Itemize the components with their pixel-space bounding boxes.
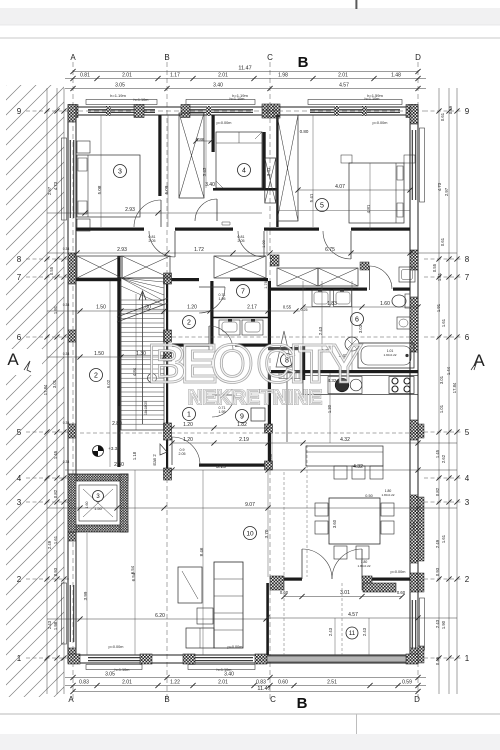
svg-text:1.01: 1.01 bbox=[439, 404, 444, 413]
room 6 bbox=[351, 313, 364, 326]
wall corridor north y227 bbox=[76, 228, 144, 231]
svg-text:p=0.00m: p=0.00m bbox=[217, 121, 232, 125]
svg-text:2: 2 bbox=[465, 575, 470, 584]
svg-text:1.17: 1.17 bbox=[170, 73, 180, 79]
svg-text:B: B bbox=[297, 695, 308, 712]
svg-text:7: 7 bbox=[241, 289, 245, 296]
svg-text:0.59: 0.59 bbox=[448, 105, 453, 114]
svg-text:17.84: 17.84 bbox=[43, 384, 48, 395]
svg-text:h=1.10m: h=1.10m bbox=[230, 97, 245, 101]
wall room3 east x158 bbox=[158, 115, 161, 196]
svg-text:6.02: 6.02 bbox=[106, 379, 111, 388]
svg-text:0.45: 0.45 bbox=[435, 656, 440, 665]
svg-text:2.62: 2.62 bbox=[441, 454, 446, 463]
svg-text:2.97: 2.97 bbox=[444, 187, 449, 196]
boiler bbox=[345, 337, 359, 351]
svg-text:0.93: 0.93 bbox=[435, 567, 440, 576]
elevator shaft bbox=[68, 474, 128, 532]
door bath7 bbox=[199, 286, 225, 288]
svg-text:1: 1 bbox=[17, 654, 22, 663]
svg-text:p=0.00m: p=0.00m bbox=[391, 570, 406, 574]
right wall piers bbox=[410, 105, 418, 125]
svg-text:1: 1 bbox=[187, 412, 191, 419]
terrace double door bbox=[301, 549, 303, 579]
svg-text:3.05: 3.05 bbox=[105, 672, 115, 678]
svg-text:4: 4 bbox=[17, 474, 22, 483]
svg-text:6: 6 bbox=[17, 333, 22, 342]
svg-text:A: A bbox=[68, 695, 74, 704]
svg-text:2.01: 2.01 bbox=[218, 73, 228, 79]
bar stools bbox=[334, 466, 347, 479]
room 4 bbox=[238, 164, 251, 177]
svg-text:4.73: 4.73 bbox=[437, 182, 442, 191]
staircase bbox=[121, 278, 164, 430]
svg-text:2.49: 2.49 bbox=[435, 539, 440, 548]
bathtub bbox=[358, 343, 414, 368]
wall bath6 north y287 bbox=[268, 288, 367, 291]
svg-text:3.40: 3.40 bbox=[205, 182, 215, 188]
svg-text:1.18: 1.18 bbox=[132, 451, 137, 460]
svg-text:3.01: 3.01 bbox=[340, 590, 350, 596]
svg-text:0.60: 0.60 bbox=[280, 590, 289, 595]
svg-text:A: A bbox=[7, 350, 19, 369]
svg-text:9: 9 bbox=[465, 107, 470, 116]
big pier C bbox=[262, 104, 280, 118]
svg-text:1.50: 1.50 bbox=[94, 506, 103, 511]
wall hall east x268 bbox=[268, 281, 271, 345]
top dim rows bbox=[73, 71, 418, 73]
svg-text:h=1.10m: h=1.10m bbox=[134, 98, 149, 102]
svg-text:4.07: 4.07 bbox=[335, 184, 345, 190]
svg-text:3: 3 bbox=[465, 498, 470, 507]
left dim chains bbox=[46, 88, 48, 694]
door room3 bbox=[160, 200, 162, 227]
nightstands room3 bbox=[77, 141, 90, 153]
svg-text:0.61: 0.61 bbox=[440, 237, 445, 246]
svg-text:2.43: 2.43 bbox=[362, 627, 367, 636]
svg-text:0.50: 0.50 bbox=[365, 494, 372, 498]
svg-text:18x18/25: 18x18/25 bbox=[144, 401, 148, 415]
svg-text:4.57: 4.57 bbox=[339, 83, 349, 89]
bath6 vertical dims line bbox=[302, 281, 304, 370]
kitchen island bbox=[306, 446, 383, 466]
svg-text:1.82: 1.82 bbox=[237, 422, 247, 428]
svg-text:4.73: 4.73 bbox=[53, 181, 58, 190]
svg-text:1.22: 1.22 bbox=[170, 680, 180, 686]
svg-text:stan 2: stan 2 bbox=[152, 454, 157, 466]
bed room5 bbox=[349, 163, 404, 223]
svg-text:4.32: 4.32 bbox=[340, 437, 350, 443]
svg-text:1.60: 1.60 bbox=[380, 301, 390, 307]
svg-text:2.49: 2.49 bbox=[47, 540, 52, 549]
svg-text:3.99: 3.99 bbox=[83, 591, 88, 600]
long thin dim verticals for density bbox=[100, 115, 102, 227]
closet hall6 bbox=[277, 268, 318, 286]
bottom windows bbox=[86, 665, 142, 670]
room 1 bbox=[183, 408, 196, 421]
svg-text:9.07: 9.07 bbox=[245, 502, 255, 508]
room 9 bbox=[236, 410, 249, 423]
top window mullions bbox=[106, 106, 111, 116]
svg-text:2.05: 2.05 bbox=[149, 239, 156, 243]
svg-text:1.76: 1.76 bbox=[264, 281, 268, 288]
row6 dashed through bbox=[172, 336, 418, 338]
svg-text:8: 8 bbox=[465, 255, 470, 264]
svg-text:2.93: 2.93 bbox=[117, 247, 127, 253]
svg-text:5: 5 bbox=[465, 428, 470, 437]
svg-text:1.50: 1.50 bbox=[94, 351, 104, 357]
living room dims bbox=[47, 507, 457, 509]
svg-text:C: C bbox=[270, 695, 276, 704]
wall terrace west x266 bbox=[266, 583, 269, 655]
nightstand room5 bbox=[341, 155, 352, 163]
svg-text:2: 2 bbox=[94, 373, 98, 380]
bottom dim rows bbox=[65, 677, 426, 679]
door hall1 bbox=[212, 394, 234, 396]
terrace radiator bbox=[363, 583, 396, 592]
svg-text:2.05: 2.05 bbox=[179, 452, 186, 456]
right wall outer pier extensions bbox=[418, 424, 424, 438]
svg-text:2.93: 2.93 bbox=[125, 207, 135, 213]
page bottom border bbox=[0, 713, 500, 715]
svg-text:NEKRETNINE: NEKRETNINE bbox=[188, 387, 322, 409]
level marker bbox=[93, 446, 104, 457]
svg-text:h=1.19m: h=1.19m bbox=[110, 93, 126, 98]
svg-text:4: 4 bbox=[242, 168, 246, 175]
door room4 bbox=[216, 199, 218, 221]
svg-text:C: C bbox=[267, 53, 273, 62]
pier hall x265 bbox=[265, 424, 273, 433]
bottom wall piers bbox=[68, 654, 80, 664]
svg-text:5.08: 5.08 bbox=[164, 185, 169, 194]
closet room4 bbox=[265, 158, 276, 203]
wall stair east x164 bbox=[166, 273, 168, 480]
svg-text:7: 7 bbox=[17, 273, 22, 282]
svg-text:17.84: 17.84 bbox=[452, 382, 457, 393]
svg-text:3.43: 3.43 bbox=[202, 167, 207, 176]
svg-text:0.88: 0.88 bbox=[268, 453, 273, 462]
svg-text:BEO CITY: BEO CITY bbox=[148, 334, 362, 394]
svg-text:1.83: 1.83 bbox=[327, 301, 337, 307]
left wall piers bbox=[68, 105, 76, 123]
svg-text:1.91: 1.91 bbox=[53, 305, 58, 314]
outer wall top bbox=[68, 106, 418, 108]
svg-text:0.55: 0.55 bbox=[283, 305, 292, 310]
top gray band bbox=[0, 8, 500, 25]
tv cabinet bbox=[178, 567, 202, 603]
svg-text:1.80-0.22: 1.80-0.22 bbox=[381, 493, 394, 497]
svg-text:1.91: 1.91 bbox=[436, 303, 441, 312]
svg-text:h=1.10m: h=1.10m bbox=[217, 668, 232, 672]
svg-text:1.30: 1.30 bbox=[141, 305, 151, 311]
svg-text:8: 8 bbox=[17, 255, 22, 264]
svg-text:3: 3 bbox=[118, 169, 122, 176]
wall bath7 south y343 bbox=[172, 344, 209, 347]
svg-text:3.70: 3.70 bbox=[264, 529, 269, 538]
svg-text:9: 9 bbox=[17, 107, 22, 116]
svg-text:B: B bbox=[164, 53, 169, 62]
svg-text:A: A bbox=[70, 53, 76, 62]
svg-text:7: 7 bbox=[465, 273, 470, 282]
svg-text:6: 6 bbox=[355, 317, 359, 324]
wardrobe room5 bbox=[277, 115, 298, 221]
room 2b bbox=[90, 369, 103, 382]
svg-text:0.80: 0.80 bbox=[300, 129, 309, 134]
svg-text:2.17: 2.17 bbox=[247, 305, 257, 311]
svg-text:1.45: 1.45 bbox=[53, 450, 58, 459]
svg-text:1.45: 1.45 bbox=[435, 449, 440, 458]
wall corridor south y278 bbox=[76, 278, 121, 281]
bench right of door bbox=[399, 267, 415, 282]
svg-text:0.93: 0.93 bbox=[53, 567, 58, 576]
room5 dim line bbox=[298, 189, 410, 191]
svg-text:1.61: 1.61 bbox=[441, 318, 446, 327]
svg-text:2.01: 2.01 bbox=[122, 680, 132, 686]
svg-text:3.40: 3.40 bbox=[213, 83, 223, 89]
outer wall bottom bbox=[68, 654, 418, 656]
svg-text:1.48: 1.48 bbox=[391, 73, 401, 79]
wall room4 east x262 bbox=[263, 132, 266, 190]
svg-text:0.55: 0.55 bbox=[432, 263, 437, 272]
terrace dashed lines bbox=[283, 583, 285, 655]
outer wall right bbox=[409, 107, 411, 663]
door room5 bbox=[350, 231, 352, 259]
svg-text:5.08: 5.08 bbox=[97, 185, 102, 194]
svg-text:1.98: 1.98 bbox=[53, 621, 58, 630]
svg-text:1.61: 1.61 bbox=[441, 534, 446, 543]
wall room4 west x211 bbox=[212, 115, 215, 152]
door bath7 lower bbox=[208, 326, 210, 350]
room 5 bbox=[316, 199, 329, 212]
wall stair west x117 bbox=[117, 256, 120, 467]
svg-text:2.51: 2.51 bbox=[327, 680, 337, 686]
svg-text:1.95: 1.95 bbox=[219, 297, 226, 301]
wardrobe A bbox=[179, 113, 204, 198]
small sink bath6 bbox=[397, 317, 410, 329]
svg-text:D: D bbox=[415, 53, 421, 62]
room 10 bbox=[244, 527, 257, 540]
svg-text:1.20: 1.20 bbox=[187, 305, 197, 311]
wall room8 x302 bbox=[302, 346, 305, 380]
svg-text:2: 2 bbox=[17, 575, 22, 584]
svg-text:11.47: 11.47 bbox=[238, 66, 251, 72]
svg-text:5.54: 5.54 bbox=[130, 565, 135, 574]
top wall piers bbox=[68, 105, 78, 118]
svg-text:0.82: 0.82 bbox=[435, 487, 440, 496]
left windows bbox=[62, 138, 67, 220]
dining table bbox=[329, 498, 380, 544]
grid dashed verticals bbox=[72, 62, 74, 700]
room 11 bbox=[346, 627, 358, 639]
svg-text:1: 1 bbox=[465, 654, 470, 663]
top dark tick bbox=[355, 0, 357, 9]
svg-text:0.60: 0.60 bbox=[278, 680, 288, 686]
svg-text:2.19: 2.19 bbox=[239, 437, 249, 443]
grid row 9 dashed through bbox=[70, 110, 424, 112]
entrance door stan2 bbox=[171, 437, 173, 465]
svg-text:p=0.90m: p=0.90m bbox=[412, 521, 416, 534]
room4 0.86 line bbox=[196, 140, 213, 142]
svg-text:2.01: 2.01 bbox=[338, 73, 348, 79]
svg-text:2.43: 2.43 bbox=[435, 619, 440, 628]
svg-text:3.40: 3.40 bbox=[224, 672, 234, 678]
svg-text:4.32: 4.32 bbox=[353, 464, 363, 470]
svg-text:2.80: 2.80 bbox=[112, 421, 122, 427]
svg-text:0.82: 0.82 bbox=[53, 489, 58, 498]
svg-text:0.59: 0.59 bbox=[402, 680, 412, 686]
svg-text:5: 5 bbox=[17, 428, 22, 437]
svg-text:1.80-0.22: 1.80-0.22 bbox=[357, 564, 370, 568]
svg-text:1.90: 1.90 bbox=[441, 620, 446, 629]
svg-text:8.46: 8.46 bbox=[199, 547, 204, 556]
svg-text:1.60: 1.60 bbox=[85, 502, 89, 509]
sofa bbox=[214, 562, 243, 648]
svg-text:p=0.00m: p=0.00m bbox=[109, 645, 124, 649]
right dim chains bbox=[438, 88, 440, 694]
svg-text:6: 6 bbox=[465, 333, 470, 342]
svg-text:2.43: 2.43 bbox=[47, 620, 52, 629]
svg-text:4: 4 bbox=[465, 474, 470, 483]
plant symbol bbox=[276, 331, 292, 367]
terrace parapet bbox=[267, 656, 406, 662]
svg-text:1.50: 1.50 bbox=[96, 305, 106, 311]
svg-text:0.83: 0.83 bbox=[79, 680, 89, 686]
interior dims bbox=[47, 252, 457, 254]
svg-text:2: 2 bbox=[187, 320, 191, 327]
chairs bbox=[315, 503, 328, 516]
svg-text:9: 9 bbox=[240, 414, 244, 421]
corridor door A bbox=[174, 231, 176, 257]
svg-text:1.95: 1.95 bbox=[219, 410, 226, 414]
svg-text:3.03: 3.03 bbox=[358, 324, 363, 333]
wall bath7 west x210 bbox=[210, 281, 213, 345]
svg-text:1.44: 1.44 bbox=[446, 366, 451, 375]
svg-text:2.43: 2.43 bbox=[328, 627, 333, 636]
svg-text:3.01: 3.01 bbox=[52, 379, 57, 388]
svg-text:6.75: 6.75 bbox=[325, 247, 335, 253]
svg-text:4.81: 4.81 bbox=[366, 204, 371, 213]
bath7 counter and basins bbox=[213, 317, 268, 319]
svg-text:6.20: 6.20 bbox=[155, 613, 165, 619]
svg-text:h=1.10m: h=1.10m bbox=[115, 668, 130, 672]
washer room9 bbox=[251, 408, 265, 421]
svg-text:2.01: 2.01 bbox=[122, 73, 132, 79]
svg-text:4.57: 4.57 bbox=[348, 612, 358, 618]
svg-text:3.15: 3.15 bbox=[216, 464, 226, 470]
toilet bath6 bbox=[405, 294, 410, 308]
svg-text:3.60: 3.60 bbox=[332, 519, 337, 528]
svg-text:11.47: 11.47 bbox=[257, 686, 270, 692]
svg-text:3: 3 bbox=[17, 498, 22, 507]
svg-text:5: 5 bbox=[320, 203, 324, 210]
svg-text:p=0.00m: p=0.00m bbox=[373, 121, 388, 125]
living dashed verticals bbox=[283, 472, 285, 577]
svg-text:1.30: 1.30 bbox=[136, 351, 146, 357]
wall closet col x276 bbox=[276, 115, 278, 227]
svg-text:0.55: 0.55 bbox=[49, 266, 54, 275]
svg-text:1.20: 1.20 bbox=[183, 422, 193, 428]
room 3 bbox=[114, 165, 127, 178]
svg-text:2.05: 2.05 bbox=[238, 239, 245, 243]
kitchen sink unit bbox=[328, 377, 362, 394]
svg-text:2.01: 2.01 bbox=[218, 680, 228, 686]
svg-text:3.01: 3.01 bbox=[439, 375, 444, 384]
wall room8 north y347 bbox=[268, 347, 302, 350]
wall hall south y463 bbox=[199, 464, 268, 467]
right windows bbox=[420, 128, 425, 202]
outer wall left bbox=[67, 107, 69, 663]
bed room4 bbox=[216, 132, 262, 188]
door bath6 bbox=[369, 266, 371, 290]
svg-text:3.31: 3.31 bbox=[266, 167, 271, 176]
svg-text:1.41: 1.41 bbox=[437, 272, 442, 281]
svg-text:1.72: 1.72 bbox=[194, 247, 204, 253]
wall room4 south y188 bbox=[213, 188, 277, 191]
stove bbox=[389, 377, 414, 394]
pier C corridor bbox=[271, 255, 280, 266]
svg-text:0.61: 0.61 bbox=[440, 112, 445, 121]
top windows bbox=[86, 100, 157, 105]
room 8 bbox=[281, 354, 294, 367]
svg-text:3.05: 3.05 bbox=[115, 83, 125, 89]
svg-text:0.81: 0.81 bbox=[80, 73, 90, 79]
wall terrace north y577 bbox=[284, 578, 302, 581]
svg-text:1.98: 1.98 bbox=[278, 73, 288, 79]
svg-text:1.30: 1.30 bbox=[327, 404, 332, 413]
svg-text:5.41: 5.41 bbox=[309, 193, 314, 202]
svg-text:4.84: 4.84 bbox=[132, 367, 137, 376]
pier closet end bbox=[360, 262, 369, 270]
kitchen counter south bbox=[303, 376, 418, 395]
svg-text:1.90-0.22: 1.90-0.22 bbox=[383, 353, 396, 357]
svg-text:1.20: 1.20 bbox=[183, 437, 193, 443]
svg-text:p=0.00m: p=0.00m bbox=[228, 645, 243, 649]
radiator room8 bbox=[279, 372, 302, 379]
corridor closet east bbox=[214, 256, 266, 278]
room 2a bbox=[183, 316, 196, 329]
svg-text:11: 11 bbox=[349, 631, 356, 637]
stair arrow bbox=[142, 292, 144, 424]
bed room3 bbox=[77, 155, 140, 217]
bath6 counter and basins bbox=[306, 288, 358, 290]
page top border bbox=[0, 37, 500, 39]
corridor door B bbox=[263, 231, 265, 257]
svg-text:B: B bbox=[298, 54, 309, 71]
room 7 bbox=[237, 285, 250, 298]
svg-text:0.83: 0.83 bbox=[256, 680, 266, 686]
svg-text:10: 10 bbox=[246, 530, 254, 537]
corridor closet west bbox=[77, 256, 122, 278]
svg-text:1.61: 1.61 bbox=[53, 535, 58, 544]
svg-text:0.60: 0.60 bbox=[397, 590, 406, 595]
svg-text:2.97: 2.97 bbox=[47, 186, 52, 195]
svg-text:h=1.10m: h=1.10m bbox=[365, 97, 380, 101]
stair cut mark bbox=[117, 303, 168, 322]
wall bath6 south y370 bbox=[271, 370, 418, 373]
svg-text:D: D bbox=[414, 695, 420, 704]
